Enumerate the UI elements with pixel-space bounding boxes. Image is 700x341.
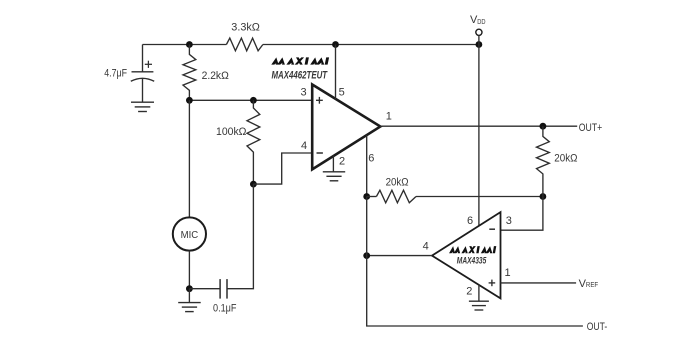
op-amp U1 minus input symbol bbox=[317, 152, 323, 154]
wire output OUT+ rail bbox=[380, 125, 577, 127]
resistor R5 20k vertical bbox=[537, 126, 550, 196]
svg-text:2.2kΩ: 2.2kΩ bbox=[202, 70, 229, 82]
op-amp U2 MAX4335 triangle (points left) bbox=[432, 212, 501, 298]
resistor R4 20k horizontal bbox=[367, 196, 377, 198]
node junction feedback right bbox=[540, 193, 547, 200]
svg-text:6: 6 bbox=[368, 153, 374, 165]
VDD terminal circle bbox=[476, 29, 482, 35]
svg-text:OUT+: OUT+ bbox=[579, 122, 602, 134]
resistor R1 3.3k zigzag bbox=[226, 38, 263, 51]
svg-text:4.7μF: 4.7μF bbox=[104, 67, 127, 79]
node junction pin4 bbox=[363, 252, 370, 259]
wire feedback to U2 pin3 bbox=[501, 197, 543, 231]
svg-text:3: 3 bbox=[506, 215, 512, 227]
wire top rail right segment (3.3k to VDD node) bbox=[263, 44, 479, 46]
capacitor C2 0.1uF plates bbox=[219, 279, 221, 299]
wire 0.1uF to inverting node bbox=[227, 184, 253, 289]
ground G2 (below MIC) bbox=[188, 289, 190, 303]
wire U2 output VREF bbox=[501, 282, 577, 284]
node junction pin5 tap bbox=[332, 41, 339, 48]
op-amp U1 plus input symbol bbox=[316, 99, 323, 101]
wire U2 pin4 bbox=[367, 255, 432, 257]
wire MIC top lead bbox=[188, 100, 190, 217]
wire 100k bottom lead bbox=[252, 156, 254, 184]
ground G3 (pin 2 of U1) bbox=[332, 156, 334, 172]
svg-text:4: 4 bbox=[301, 140, 307, 152]
wire cap bottom lead bbox=[142, 79, 144, 103]
node junction 2.2k bottom bbox=[186, 97, 193, 104]
svg-text:1: 1 bbox=[386, 110, 392, 122]
wire MIC bottom lead bbox=[188, 251, 190, 289]
wire VDD stem bbox=[478, 35, 480, 44]
svg-text:20kΩ: 20kΩ bbox=[554, 153, 577, 165]
svg-text:MAX4462TEUT: MAX4462TEUT bbox=[272, 69, 329, 81]
ground G4 (pin 2 of U2) bbox=[478, 285, 480, 302]
resistor R3 100k zigzag bbox=[247, 100, 260, 156]
svg-text:6: 6 bbox=[467, 215, 473, 227]
plus sign of C1 bbox=[145, 63, 152, 65]
svg-text:3: 3 bbox=[301, 87, 307, 99]
svg-text:OUT-: OUT- bbox=[587, 321, 608, 333]
MAXIM logo U1 bbox=[271, 57, 329, 64]
node junction MIC bottom bbox=[186, 285, 193, 292]
svg-text:REF: REF bbox=[586, 282, 598, 289]
svg-text:MAX4335: MAX4335 bbox=[457, 256, 487, 267]
wire pin5 supply bbox=[335, 45, 337, 100]
wire inverting input L-path bbox=[253, 153, 312, 184]
capacitor C1 4.7uF positive plate bbox=[132, 71, 154, 73]
wire VDD supply drop to U2 pin6 bbox=[478, 45, 480, 227]
op-amp U1 MAX4462 triangle bbox=[312, 85, 380, 170]
resistor R2 2.2k zigzag bbox=[183, 45, 196, 101]
svg-text:20kΩ: 20kΩ bbox=[386, 176, 409, 188]
ground G1 (below C1) bbox=[131, 101, 154, 103]
op-amp U2 plus input symbol bbox=[489, 282, 496, 284]
svg-text:4: 4 bbox=[423, 241, 429, 253]
node junction top-left (2.2k top) bbox=[186, 41, 193, 48]
svg-text:2: 2 bbox=[466, 286, 472, 298]
svg-text:DD: DD bbox=[477, 19, 485, 26]
svg-text:1: 1 bbox=[504, 267, 510, 279]
wire OUT- drop and rail bbox=[367, 197, 583, 327]
svg-text:5: 5 bbox=[339, 87, 345, 99]
microphone MIC circle bbox=[173, 217, 206, 250]
capacitor C1 curved plate bbox=[131, 78, 154, 81]
node junction VDD bbox=[476, 41, 483, 48]
node junction feedback left bbox=[363, 193, 370, 200]
node junction 100k top bbox=[250, 97, 257, 104]
wire cap top lead bbox=[142, 45, 144, 72]
svg-text:0.1μF: 0.1μF bbox=[213, 303, 237, 315]
wire pin6 feedback drop bbox=[366, 135, 368, 197]
node junction 100k bottom bbox=[250, 181, 257, 188]
svg-text:2: 2 bbox=[339, 155, 345, 167]
svg-text:100kΩ: 100kΩ bbox=[216, 126, 247, 138]
wire top rail left segment (cap to 3.3k) bbox=[143, 44, 227, 46]
MAXIM logo U2 bbox=[449, 246, 496, 253]
wire noninverting input rail bbox=[189, 99, 312, 101]
wire to 0.1uF cap bbox=[189, 288, 220, 290]
svg-text:MIC: MIC bbox=[181, 229, 199, 241]
svg-text:3.3kΩ: 3.3kΩ bbox=[231, 22, 260, 34]
op-amp U2 minus input symbol bbox=[489, 228, 495, 230]
node junction OUT+ bbox=[540, 123, 547, 130]
